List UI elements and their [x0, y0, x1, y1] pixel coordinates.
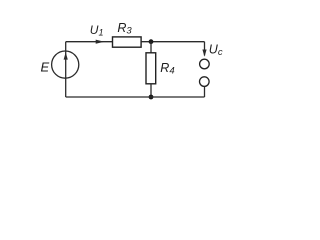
wire top: R3 to right corner	[141, 41, 204, 43]
arrow U1 on top wire	[96, 40, 105, 44]
resistor R3	[113, 37, 142, 47]
wire right down with Uc arrow	[204, 42, 206, 56]
svg-text:E: E	[41, 59, 50, 74]
node junction bottom	[149, 95, 154, 100]
wire top: source to R3	[66, 41, 113, 43]
wire stub top dot to R4	[150, 42, 152, 53]
wire stub R4 to bottom dot	[150, 84, 152, 97]
resistor R4	[146, 53, 156, 84]
node junction top	[149, 39, 154, 44]
wire bottom	[66, 96, 205, 98]
terminal bottom circle	[200, 77, 210, 87]
source E circle	[52, 51, 79, 78]
wire stub bottom terminal	[204, 87, 206, 98]
wire left vertical through source	[65, 42, 67, 97]
terminal top circle	[200, 59, 210, 69]
arrowhead Uc	[202, 50, 206, 57]
source E arrowhead	[64, 52, 68, 59]
